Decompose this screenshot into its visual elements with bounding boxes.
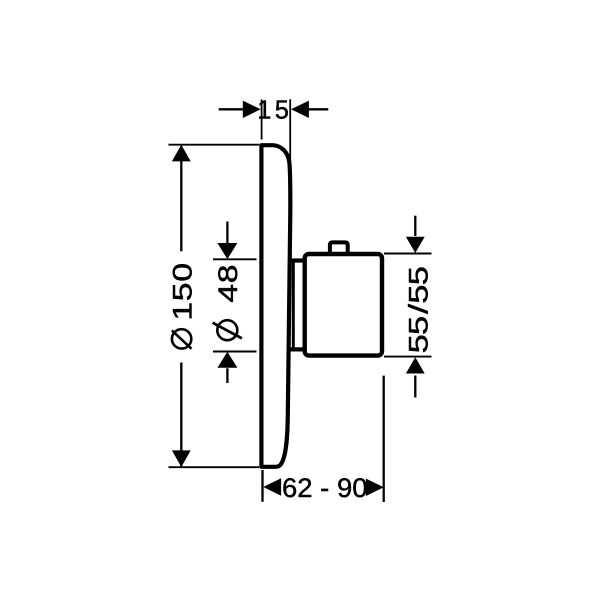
extension line left (for 15) [261,100,263,140]
valve sleeve top line [289,258,305,262]
arrowhead left-pointing (15 right) [291,101,309,118]
dimension line diameter 48 upper tail [226,222,228,244]
svg-text:5: 5 [275,97,289,125]
escutcheon plate outline (side view) [261,145,290,467]
extension line right (for 15) [289,99,291,175]
extension line top of sleeve (for diameter 48) [213,258,257,260]
arrowhead down (diameter 150 bottom) [172,450,191,467]
diameter symbol circle (48) [217,320,237,340]
dimension line diameter 48 lower tail [226,368,228,383]
valve sleeve front edge [292,259,295,352]
svg-text:5: 5 [403,284,433,303]
arrowhead up (55/55 bottom) [406,357,425,373]
arrowhead up (diameter 48 bottom) [217,352,237,368]
handle button bump [330,242,348,256]
arrowhead right-pointing (15 left) [243,101,261,118]
svg-text:62 - 90: 62 - 90 [282,473,368,503]
dimension line 55/55 lower tail [414,376,416,398]
diameter symbol circle (150) [172,329,191,348]
svg-text:/: / [403,304,433,314]
svg-text:48: 48 [213,264,243,303]
handle knob body [305,254,382,356]
svg-text:150: 150 [167,262,197,320]
dimension tail left (15) [219,108,244,110]
dimension line diameter 150 lower segment [180,363,182,467]
diameter symbol slash (48) [213,323,242,339]
svg-text:5: 5 [403,266,433,285]
extension line bottom of plate (for diameter 150) [169,466,260,468]
arrowhead up (diameter 150 top) [172,145,191,162]
diameter symbol slash (150) [172,330,192,348]
dimension tail right (15) [308,108,328,110]
extension line bottom of sleeve (for diameter 48) [213,351,257,353]
valve sleeve bottom line [289,347,305,351]
extension line bottom of knob (for 55/55) [384,356,432,358]
svg-text:5: 5 [403,334,433,353]
dimension line diameter 150 upper segment [180,146,182,251]
svg-text:1: 1 [257,97,271,125]
dimension line 55/55 upper tail [414,216,416,236]
extension line left (for 62-90) [261,470,263,502]
extension line top of plate (for diameter 150) [169,144,260,146]
arrowhead left-pointing (62-90 left) [263,478,281,495]
svg-text:5: 5 [403,316,433,335]
arrowhead down (55/55 top) [406,237,425,253]
arrowhead right-pointing (62-90 right) [366,479,384,496]
label 55/55 [403,266,434,353]
extension line top of knob (for 55/55) [384,253,432,255]
extension line right (for 62-90) [383,376,385,502]
arrowhead down (diameter 48 top) [217,243,237,259]
